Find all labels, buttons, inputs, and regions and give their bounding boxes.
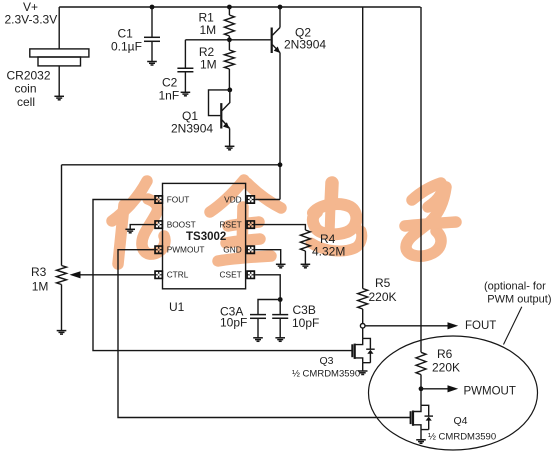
wire RSET to R4 xyxy=(255,225,305,230)
svg-text:220K: 220K xyxy=(432,361,460,375)
watermark character 1 (yi) xyxy=(112,181,165,264)
wire PWMOUT pin to Q4 gate xyxy=(118,250,411,418)
svg-text:R6: R6 xyxy=(437,347,453,361)
svg-text:TS3002: TS3002 xyxy=(186,231,226,243)
ground BOOST xyxy=(125,229,135,233)
ground Q4 source xyxy=(416,440,426,444)
svg-text:coin: coin xyxy=(15,82,37,96)
wire Q2 emitter to VDD xyxy=(279,53,281,200)
ground C2 xyxy=(181,92,191,96)
svg-text:C1: C1 xyxy=(118,27,134,41)
ground C1 xyxy=(147,62,157,66)
svg-text:FOUT: FOUT xyxy=(167,194,190,204)
svg-text:2.3V-3.3V: 2.3V-3.3V xyxy=(5,12,58,26)
svg-text:Q3: Q3 xyxy=(320,355,334,367)
node Q2 collector top xyxy=(278,5,283,10)
watermark character 4 (zi) xyxy=(405,183,456,256)
node CSET caps junction xyxy=(278,297,283,302)
svg-text:1M: 1M xyxy=(32,279,49,293)
capacitor C2 xyxy=(184,40,186,69)
wire R3 top xyxy=(61,165,63,266)
IC U1 TS3002 body xyxy=(163,183,246,288)
svg-text:10pF: 10pF xyxy=(292,316,319,330)
transistor Q2 2N3904 xyxy=(279,7,281,28)
pin CTRL xyxy=(154,270,163,279)
watermark character 2 (jin) xyxy=(210,180,281,261)
svg-text:1M: 1M xyxy=(200,23,217,37)
resistor R1 xyxy=(228,7,230,15)
ground Q1 emitter xyxy=(225,146,235,150)
svg-text:C3B: C3B xyxy=(293,303,316,317)
svg-text:CSET: CSET xyxy=(220,270,242,280)
svg-text:BOOST: BOOST xyxy=(167,220,196,230)
ellipse optional PWM region xyxy=(369,336,538,450)
svg-text:½ CMRDM3590: ½ CMRDM3590 xyxy=(428,431,496,442)
svg-text:C2: C2 xyxy=(162,75,178,89)
ground R3 xyxy=(57,331,67,335)
svg-text:GND: GND xyxy=(223,245,241,255)
svg-text:PWMOUT: PWMOUT xyxy=(464,386,516,398)
node PWMOUT junction xyxy=(419,386,424,391)
svg-text:FOUT: FOUT xyxy=(465,320,496,332)
wire VDD pin right xyxy=(255,199,280,201)
wire GND pin to ground xyxy=(255,250,281,265)
transistor Q4 CMRDM3590 xyxy=(413,405,421,411)
wire pointer to ellipse xyxy=(504,307,522,345)
pin GND xyxy=(246,245,255,254)
capacitor C1 xyxy=(151,7,153,37)
ground C3B xyxy=(275,338,285,342)
pin RSET xyxy=(246,220,255,229)
svg-text:½ CMRDM3590: ½ CMRDM3590 xyxy=(292,368,360,379)
pin FOUT xyxy=(154,195,163,204)
svg-text:1nF: 1nF xyxy=(159,89,180,103)
pin BOOST xyxy=(154,220,163,229)
svg-text:PWM output): PWM output) xyxy=(487,294,551,306)
node R1 top xyxy=(227,5,232,10)
svg-text:0.1µF: 0.1µF xyxy=(111,40,142,54)
wire PWMOUT output line xyxy=(421,388,448,390)
resistor R2 xyxy=(224,50,234,69)
svg-text:220K: 220K xyxy=(369,290,397,304)
ground battery xyxy=(54,96,64,100)
wire left VDD rail xyxy=(62,164,281,166)
svg-text:PWMOUT: PWMOUT xyxy=(167,245,205,255)
svg-text:VDD: VDD xyxy=(224,194,242,204)
svg-text:CTRL: CTRL xyxy=(167,270,189,280)
pin PWMOUT xyxy=(154,245,163,254)
svg-text:U1: U1 xyxy=(169,300,185,314)
node R1/R2 junction xyxy=(227,37,232,42)
ground Q3 source xyxy=(358,371,368,375)
wire CSET to caps xyxy=(255,275,280,300)
svg-text:Q4: Q4 xyxy=(454,415,468,427)
svg-text:4.32M: 4.32M xyxy=(312,244,345,258)
node Q1 collector-base tie xyxy=(227,88,232,93)
svg-text:RSET: RSET xyxy=(220,220,242,230)
ground C3A xyxy=(253,338,263,342)
watermark character 3 (dian) xyxy=(311,183,362,251)
ground GND pin xyxy=(276,264,286,268)
node C1 top xyxy=(150,5,155,10)
resistor R4 xyxy=(300,230,310,251)
capacitor C3A xyxy=(258,300,280,315)
node FOUT open circle xyxy=(360,324,365,329)
wire base rail to Q2 xyxy=(185,39,270,41)
battery CR2032 xyxy=(58,7,60,49)
transistor Q1 2N3904 diode-connected xyxy=(209,90,230,116)
wire top V+ rail xyxy=(59,6,420,8)
potentiometer R3 xyxy=(57,266,67,285)
resistor R6 xyxy=(416,352,426,374)
wire right rail 2 (R6 column) xyxy=(420,7,422,352)
wire FOUT pin to Q3 gate xyxy=(93,200,352,351)
svg-text:R3: R3 xyxy=(31,265,47,279)
svg-text:2N3904: 2N3904 xyxy=(171,122,213,136)
wire right rail 1 (R5 column) xyxy=(362,7,364,289)
transistor Q3 CMRDM3590 xyxy=(362,328,364,338)
pin CSET xyxy=(246,270,255,279)
wire FOUT output line xyxy=(365,325,448,327)
pin VDD xyxy=(246,195,255,204)
svg-text:1M: 1M xyxy=(200,57,217,71)
wire BOOST to ground xyxy=(130,225,154,230)
wire CTRL to R3 wiper arrow xyxy=(80,274,154,276)
ground R4 xyxy=(301,264,311,268)
svg-text:10pF: 10pF xyxy=(220,316,247,330)
svg-text:2N3904: 2N3904 xyxy=(284,38,326,52)
svg-text:cell: cell xyxy=(17,95,35,109)
svg-text:R5: R5 xyxy=(375,276,391,290)
svg-text:(optional- for: (optional- for xyxy=(484,281,546,293)
node VDD rail / Q2 emitter xyxy=(278,162,283,167)
resistor R5 xyxy=(358,289,368,310)
svg-text:CR2032: CR2032 xyxy=(7,69,51,83)
capacitor C3B xyxy=(279,300,281,315)
